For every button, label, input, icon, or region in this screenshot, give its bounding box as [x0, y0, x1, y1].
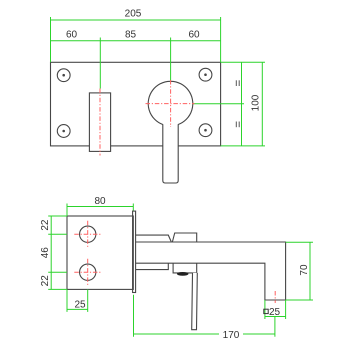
supply hole bottom [80, 264, 96, 280]
svg-text:60: 60 [66, 29, 78, 40]
center cross hole1 vertical [87, 221, 89, 248]
dim 60/85/60 line [51, 40, 221, 42]
extension middle right [193, 103, 244, 105]
red center lines [74, 80, 275, 303]
screw hole bottom-left [57, 125, 70, 138]
svg-text:25: 25 [269, 307, 281, 318]
dim 170 line right part [243, 333, 275, 335]
dim 22/46/22 line [50, 216, 52, 289]
cartridge cap (side view) [172, 233, 196, 242]
dim 80 line [67, 206, 133, 208]
extension plate top right [221, 61, 265, 63]
spout body (side view) [136, 242, 286, 300]
extension plate bottom right [221, 145, 265, 147]
center cross hole2 vertical [87, 259, 89, 286]
center line box vertical [99, 89, 101, 156]
lower pipe (side view) [136, 263, 169, 269]
wall flange (side view) [133, 211, 136, 292]
upper pipe (side view) [136, 235, 172, 242]
svg-text:80: 80 [94, 196, 106, 207]
svg-text:205: 205 [125, 9, 142, 20]
svg-text:22: 22 [40, 219, 51, 231]
green dimension geometry [48, 17, 313, 337]
svg-text:85: 85 [125, 29, 137, 40]
lever ball joint [177, 272, 189, 276]
mounting block (front view) [67, 216, 133, 289]
center cross hole1 horizontal [74, 233, 101, 235]
dim 205 line [51, 19, 221, 21]
extension wall face [133, 295, 135, 337]
extension spout bottom right [286, 299, 313, 301]
dim sq25 line [265, 316, 286, 318]
center cross circle horizontal [146, 103, 195, 105]
dim 70 line [309, 242, 311, 300]
svg-text:22: 22 [40, 275, 51, 287]
lever hub (side view) [173, 263, 197, 273]
dim 170 line left part [134, 333, 220, 335]
screw hole bottom-right [199, 124, 212, 137]
extension block bottom edge [66, 289, 68, 312]
extension hole center vertical [87, 289, 89, 312]
extension spout outer [285, 300, 287, 319]
dim 25 line [67, 308, 88, 310]
extension right [220, 17, 222, 62]
equal mark upper [236, 80, 239, 86]
mounting box [89, 93, 110, 151]
center cross hole2 horizontal [74, 271, 101, 273]
extension spout center [274, 316, 276, 337]
svg-text:25: 25 [74, 299, 86, 310]
extension hole1 center [48, 233, 67, 235]
supply hole top [80, 226, 96, 242]
extension spout top right [286, 241, 313, 243]
extension block bottom left [48, 288, 67, 290]
equal-marks dim line [241, 62, 243, 146]
svg-text:60: 60 [188, 29, 200, 40]
extension hole2 center [48, 271, 67, 273]
extension circle center [170, 38, 172, 81]
svg-text:100: 100 [251, 94, 262, 111]
handle shaft (top view) [163, 124, 178, 183]
extension box center [99, 38, 101, 89]
valve circle (top view) [148, 81, 193, 124]
wall plate outline (top view) [51, 62, 221, 146]
extension block left top [66, 204, 68, 217]
center line spout end [274, 291, 276, 303]
screw hole top-left [57, 69, 70, 82]
lever handle (side view) [192, 273, 198, 330]
center cross circle vertical [170, 80, 172, 127]
dimension texts [40, 9, 310, 341]
extension flange top [132, 204, 134, 211]
svg-text:70: 70 [299, 264, 310, 276]
extension block top left [48, 215, 67, 217]
extension left [50, 17, 52, 62]
screw hole top-right [199, 68, 212, 81]
svg-text:170: 170 [223, 330, 240, 341]
equal mark lower [236, 122, 239, 128]
square symbol of sq25 [264, 309, 268, 313]
svg-text:46: 46 [40, 247, 51, 259]
extension spout inner [264, 300, 266, 319]
dim 100 line [261, 62, 263, 146]
